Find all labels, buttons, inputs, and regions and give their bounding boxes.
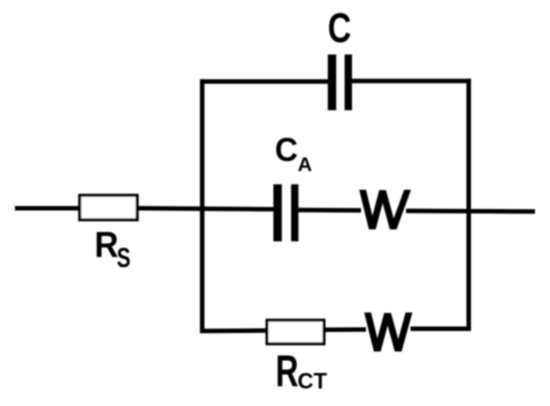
resistor RS	[80, 195, 138, 220]
capacitor CA	[273, 184, 298, 241]
resistor RCT	[267, 320, 324, 344]
wire: bottom branch left	[200, 328, 267, 333]
wire: CA to W1	[298, 208, 361, 213]
svg-text:R: R	[276, 347, 299, 396]
wire: RCT to W2	[325, 327, 366, 332]
svg-text:S: S	[117, 242, 131, 273]
wire: top branch left	[200, 79, 328, 84]
svg-text:R: R	[95, 224, 119, 265]
wire: W2 to right rail	[411, 326, 472, 331]
warburg W1	[359, 190, 411, 230]
svg-text:A: A	[298, 154, 313, 176]
warburg W2	[364, 313, 412, 352]
svg-text:C: C	[328, 4, 352, 51]
wire: main left segment	[15, 206, 80, 211]
wire: W1 to right end	[406, 209, 535, 214]
wire: RS to CA	[138, 208, 274, 209]
svg-text:CT: CT	[298, 369, 328, 394]
wire: top branch right	[352, 79, 471, 84]
svg-text:C: C	[275, 132, 298, 169]
wire: right rail	[466, 79, 471, 331]
capacitor C	[328, 55, 352, 111]
wire: left rail	[200, 79, 205, 333]
